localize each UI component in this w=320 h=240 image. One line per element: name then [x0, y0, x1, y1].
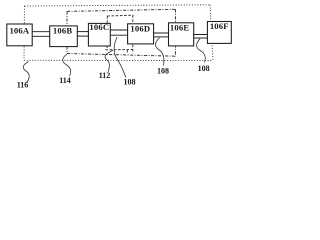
svg-text:108: 108	[124, 77, 136, 86]
svg-text:108: 108	[198, 64, 210, 73]
svg-text:106A: 106A	[9, 25, 29, 35]
svg-text:106D: 106D	[130, 24, 150, 34]
svg-text:108: 108	[157, 66, 169, 75]
svg-text:116: 116	[17, 81, 29, 90]
svg-text:106C: 106C	[89, 22, 109, 32]
svg-text:106F: 106F	[210, 21, 229, 31]
svg-text:114: 114	[59, 76, 71, 85]
svg-text:112: 112	[99, 71, 111, 80]
svg-text:106E: 106E	[170, 22, 189, 32]
svg-text:106B: 106B	[53, 26, 72, 36]
